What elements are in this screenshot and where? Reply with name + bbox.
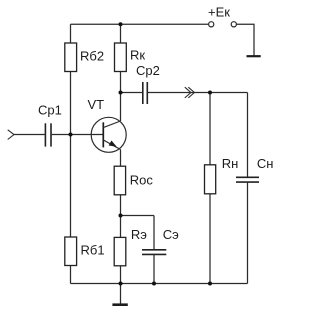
input terminal arrow — [8, 130, 14, 140]
node ground junction — [119, 282, 123, 286]
resistor Rk — [115, 43, 127, 72]
svg-text:Сэ: Сэ — [163, 227, 179, 242]
terminal circle +Ek left — [209, 22, 214, 27]
svg-text:Rб1: Rб1 — [81, 243, 105, 258]
resistor Rn — [205, 165, 216, 194]
wire Ce branch lower — [153, 255, 155, 284]
resistor Rb1 — [65, 237, 77, 266]
node base junction — [69, 133, 73, 137]
svg-text:Ср1: Ср1 — [38, 103, 62, 118]
wire collector branch vertical — [120, 24, 122, 121]
wire Cn branch upper — [247, 93, 249, 177]
wire input to Cp1 — [14, 134, 45, 136]
resistor Rb2 — [65, 43, 77, 72]
wire Ek terminal to corner — [236, 24, 254, 55]
capacitor Cp2 — [143, 82, 148, 104]
svg-text:+Ек: +Ек — [208, 4, 230, 19]
resistor Re — [114, 237, 126, 265]
svg-text:Rн: Rн — [222, 156, 239, 171]
wire bottom rail — [71, 283, 248, 285]
svg-text:Rэ: Rэ — [131, 227, 147, 242]
wire emitter branch vertical — [120, 150, 122, 284]
wire Ce branch upper — [153, 216, 155, 250]
wire Rn branch vertical — [209, 93, 211, 284]
wire Cn branch lower — [247, 183, 249, 284]
node Rn bottom junction — [208, 282, 212, 286]
node output junction — [208, 91, 212, 95]
node collector junction — [119, 91, 123, 95]
ground symbol — [112, 303, 127, 306]
transistor VT — [91, 117, 126, 152]
wire collector junction to Cp2 — [121, 92, 143, 94]
node emitter/Re junction — [119, 214, 123, 218]
wire ground stub — [120, 284, 122, 305]
capacitor Ce — [142, 250, 166, 255]
wire top rail — [71, 23, 209, 25]
output arrow chevrons — [185, 87, 195, 98]
wire left branch vertical — [70, 24, 72, 283]
capacitor Cp1 — [45, 123, 51, 146]
capacitor Cn — [236, 177, 259, 182]
node top rail / Rk junction — [119, 22, 123, 26]
wire Cp2 to output node — [148, 92, 248, 94]
svg-text:VT: VT — [88, 97, 105, 112]
svg-text:Сн: Сн — [257, 156, 274, 171]
wire Cp1 to base — [52, 134, 104, 136]
svg-text:Rб2: Rб2 — [80, 49, 104, 64]
svg-text:Ср2: Ср2 — [136, 63, 160, 78]
node Ce bottom junction — [152, 282, 156, 286]
svg-text:Rос: Rос — [130, 173, 154, 188]
Ek ground bar — [247, 55, 261, 57]
svg-text:Rк: Rк — [130, 48, 145, 63]
wire Roc to Ce link — [121, 215, 155, 217]
terminal circle +Ek right — [231, 22, 236, 27]
resistor Roc — [114, 166, 125, 195]
